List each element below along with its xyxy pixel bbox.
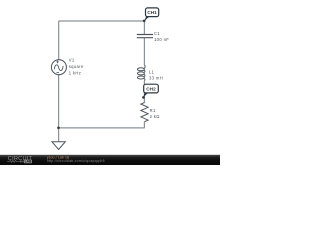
wire right vertical: node to C1 xyxy=(143,21,145,35)
svg-text:http://circuitlab.com/c/qcapqq: http://circuitlab.com/c/qcapqq4r5 xyxy=(47,159,105,163)
svg-text:R1: R1 xyxy=(150,108,156,113)
svg-text:C1: C1 xyxy=(154,31,160,36)
svg-text:CH2: CH2 xyxy=(146,87,156,92)
svg-text:2 kΩ: 2 kΩ xyxy=(150,114,160,119)
V1 labels xyxy=(69,58,84,76)
capacitor C1 xyxy=(137,35,153,38)
resistor R1 xyxy=(141,103,148,122)
wire R1 to bottom corner xyxy=(143,122,145,129)
R1 labels xyxy=(150,108,160,119)
CircuitLab logo row: resistor squiggle, cap symbol, LAB block xyxy=(7,160,24,162)
C1 labels xyxy=(154,31,169,42)
probe CH2 tail xyxy=(143,93,148,98)
wire C1 to L1 xyxy=(143,38,145,65)
L1 labels xyxy=(149,70,163,81)
svg-text:1 kHz: 1 kHz xyxy=(69,71,81,76)
wire L1 to R1 xyxy=(143,81,145,103)
svg-text:CH1: CH1 xyxy=(147,10,157,15)
probe CH1 xyxy=(146,8,159,17)
svg-text:33 mH: 33 mH xyxy=(149,76,163,81)
svg-text:square: square xyxy=(69,64,84,69)
probe CH2 xyxy=(144,84,159,93)
inductor L1 xyxy=(137,65,145,81)
wire top horizontal xyxy=(59,20,145,22)
node junction dot CH1 xyxy=(143,20,146,23)
svg-text:LAB: LAB xyxy=(25,160,32,164)
wire left vertical lower xyxy=(58,75,60,142)
svg-text:100 nF: 100 nF xyxy=(154,37,169,42)
probe CH1 tail xyxy=(144,16,149,21)
wire left vertical upper xyxy=(58,21,60,60)
ground xyxy=(52,142,65,150)
wire bottom horizontal xyxy=(59,127,145,129)
svg-text:L1: L1 xyxy=(149,70,155,75)
node junction dot CH2 xyxy=(142,96,145,99)
svg-text:V1: V1 xyxy=(69,58,75,63)
node junction dot bottom-left xyxy=(57,127,60,130)
voltage source V1 xyxy=(51,60,66,75)
